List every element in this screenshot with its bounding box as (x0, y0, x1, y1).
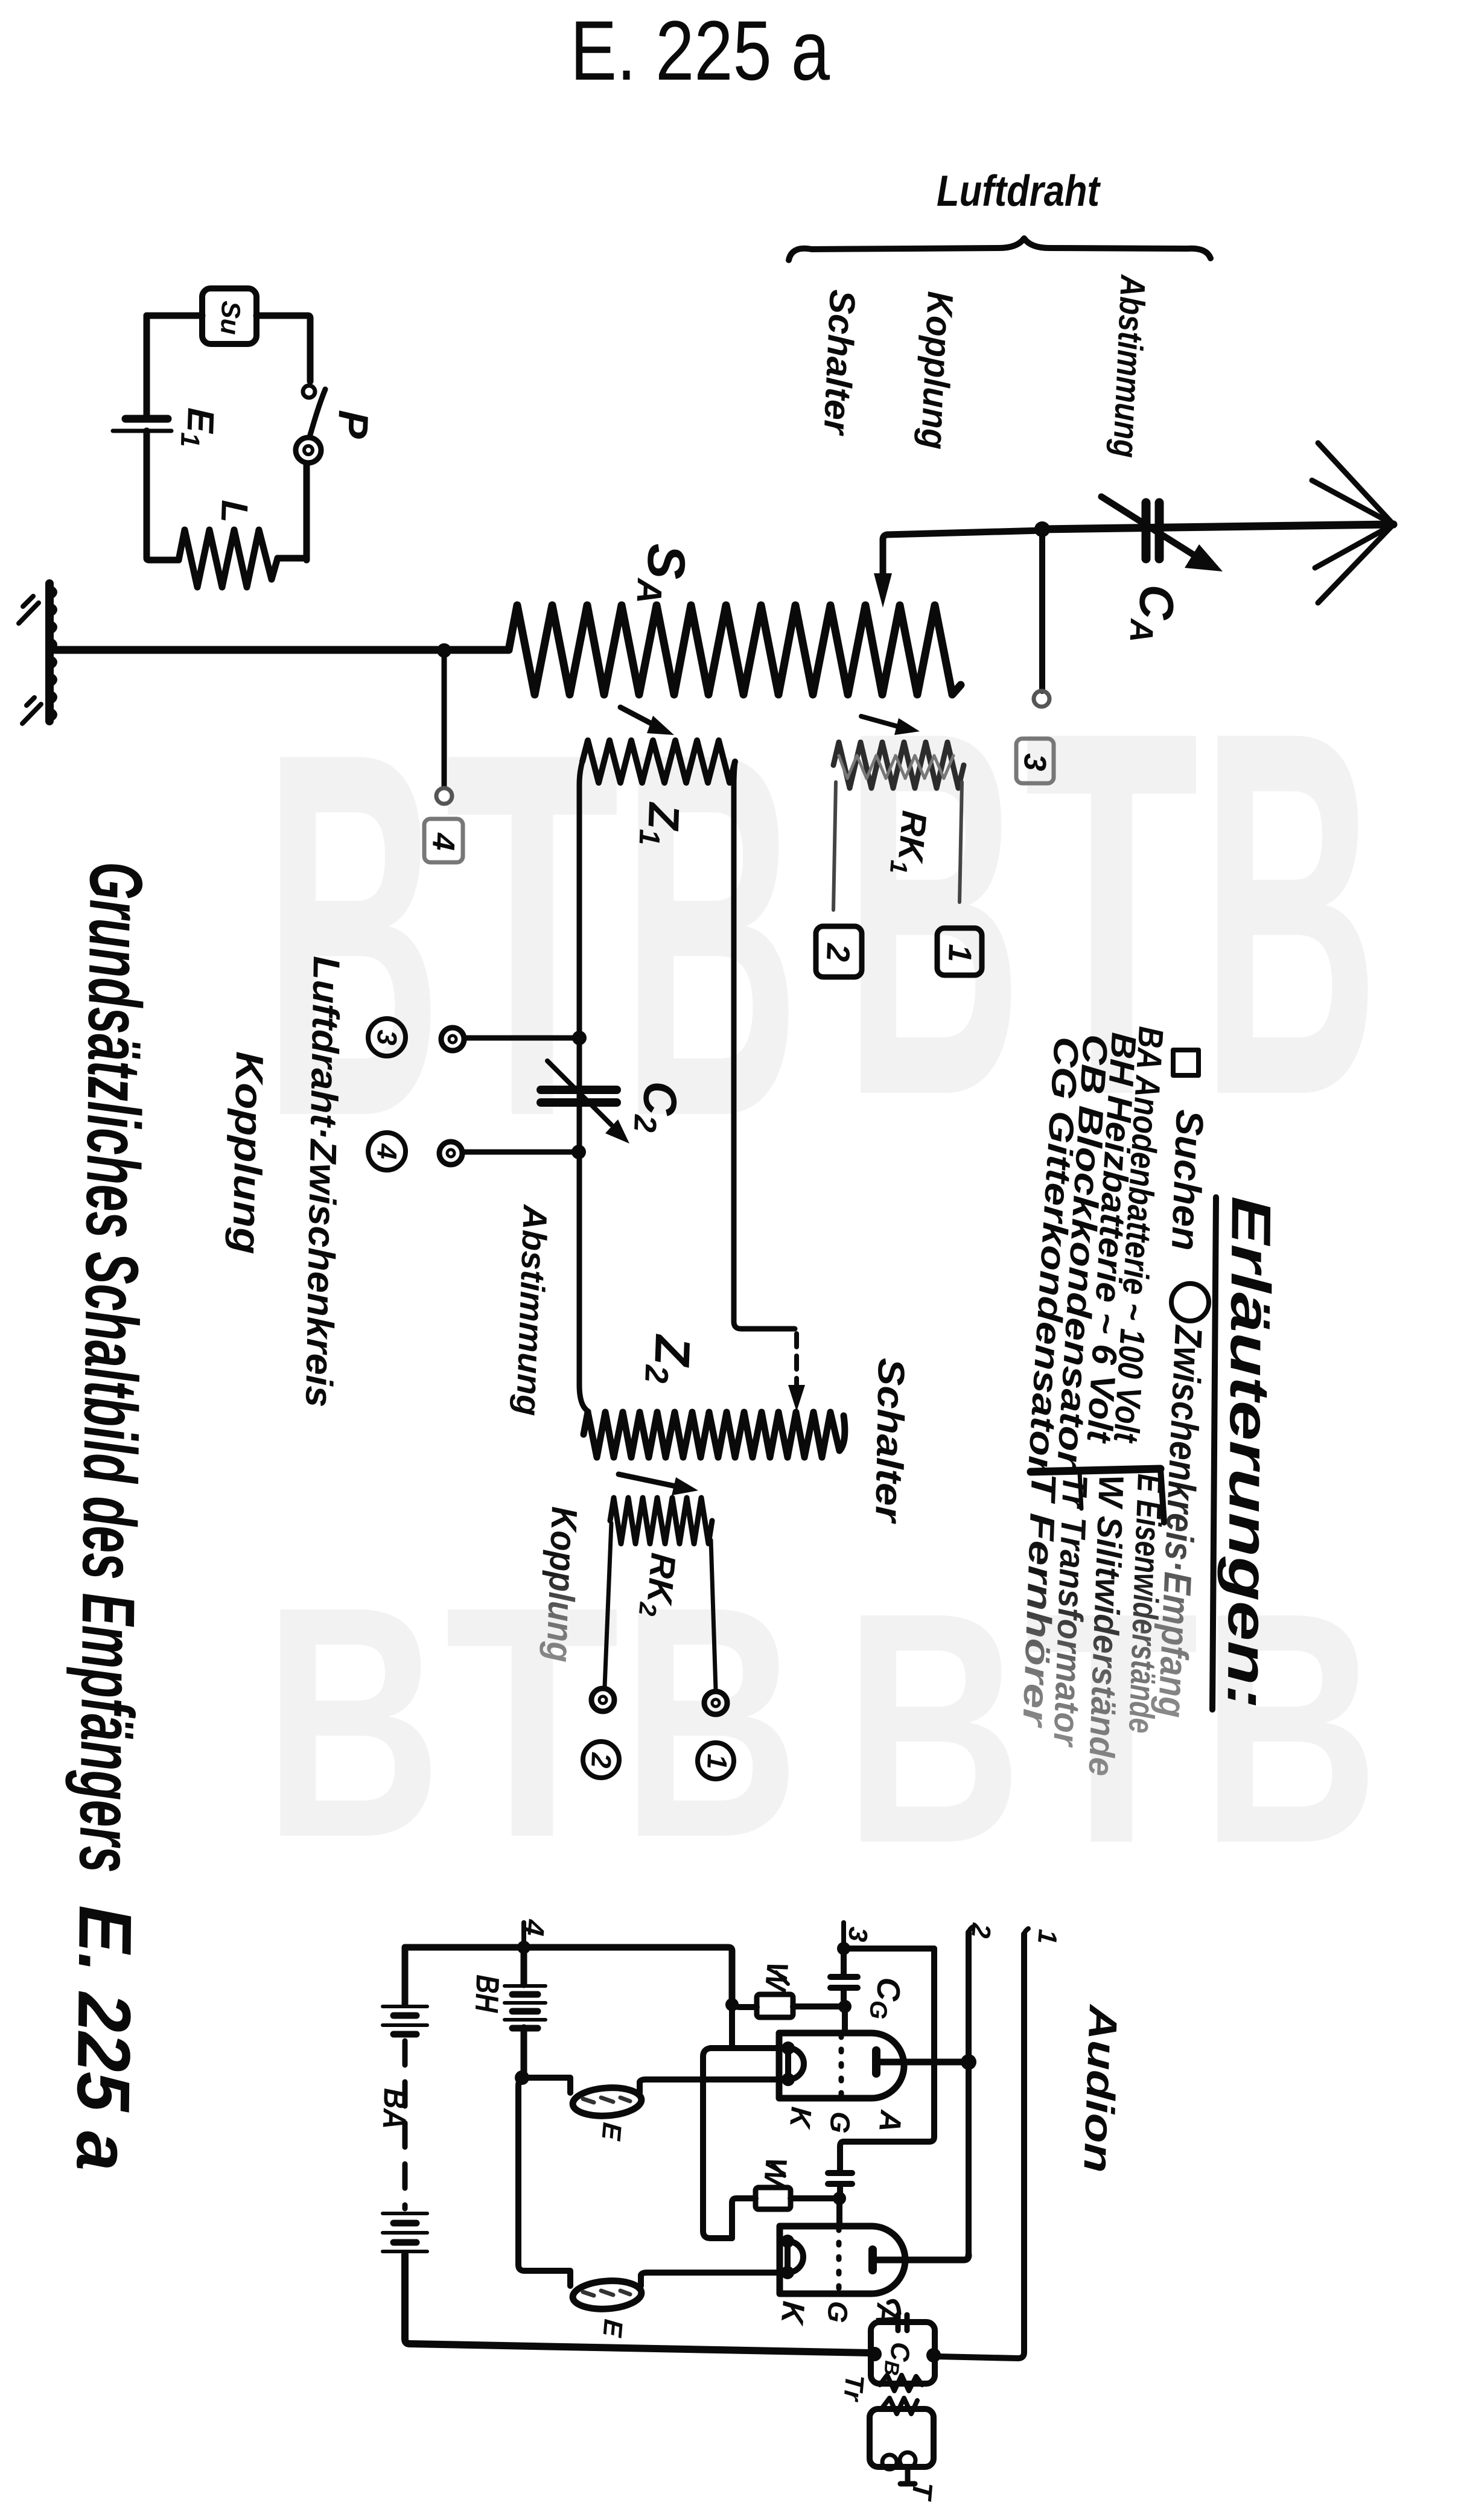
svg-text:Su: Su (215, 301, 246, 336)
svg-text:BH: BH (468, 1974, 506, 2014)
svg-text:BA: BA (376, 2088, 413, 2130)
svg-text:P: P (329, 409, 377, 439)
svg-text:A: A (873, 2108, 908, 2134)
svg-text:1: 1 (1032, 1928, 1063, 1946)
svg-text:1: 1 (701, 1754, 733, 1770)
svg-text:T: T (445, 644, 620, 1224)
svg-text:Abstimmung: Abstimmung (509, 1203, 555, 1417)
svg-text:E. 225 a: E. 225 a (60, 1905, 147, 2171)
svg-text:3: 3 (371, 1029, 403, 1046)
svg-text:4: 4 (371, 1143, 403, 1160)
svg-text:W: W (759, 1961, 795, 1994)
svg-text:Abstimmung: Abstimmung (1106, 273, 1153, 459)
svg-text:Schalter: Schalter (816, 288, 863, 437)
svg-text:4: 4 (425, 832, 461, 851)
svg-text:Kopplung: Kopplung (224, 1051, 272, 1255)
svg-text:2: 2 (585, 1752, 617, 1769)
svg-text:1: 1 (941, 944, 978, 963)
svg-text:E: E (596, 2121, 627, 2142)
svg-text:3: 3 (842, 1926, 873, 1943)
svg-text:B: B (264, 644, 442, 1224)
svg-text:T: T (445, 1539, 620, 1906)
svg-text:W: W (757, 2156, 794, 2190)
svg-text:A: A (869, 2301, 905, 2327)
svg-text:Schalter: Schalter (867, 1358, 912, 1524)
svg-text:E: E (597, 2318, 628, 2339)
svg-text:Audion: Audion (1075, 2003, 1126, 2174)
svg-text:2: 2 (966, 1921, 996, 1939)
svg-text:Erläuterungen:: Erläuterungen: (1216, 1196, 1282, 1710)
svg-text:Luftdraht: Luftdraht (937, 167, 1101, 215)
svg-text:Kopplung: Kopplung (914, 290, 961, 450)
svg-text:E. 225 a: E. 225 a (570, 3, 830, 98)
svg-text:B: B (1201, 623, 1379, 1203)
svg-text:2: 2 (820, 943, 856, 962)
svg-text:B: B (844, 1545, 1022, 1912)
svg-text:Tr: Tr (838, 2373, 870, 2404)
svg-text:3: 3 (1017, 753, 1052, 772)
svg-text:L: L (213, 500, 255, 524)
svg-text:Suchen: Suchen (1164, 1109, 1212, 1252)
svg-text:B: B (264, 1539, 442, 1906)
svg-text:B: B (844, 623, 1022, 1203)
svg-text:4: 4 (517, 1918, 550, 1937)
svg-text:G: G (824, 2110, 857, 2134)
svg-text:Luftdraht·Zwischenkreis: Luftdraht·Zwischenkreis (298, 956, 347, 1408)
svg-text:Grundsätzliches Schaltbild des: Grundsätzliches Schaltbild des Empfänger… (63, 862, 158, 1873)
svg-text:Kopplung: Kopplung (539, 1506, 585, 1663)
svg-text:G: G (821, 2300, 855, 2324)
